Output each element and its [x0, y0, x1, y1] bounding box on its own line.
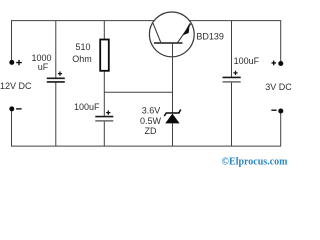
- svg-text:3V DC: 3V DC: [265, 82, 292, 92]
- svg-text:510: 510: [75, 42, 90, 52]
- svg-text:ZD: ZD: [145, 126, 157, 136]
- svg-text:0.5W: 0.5W: [140, 116, 162, 126]
- svg-text:3.6V: 3.6V: [142, 106, 161, 116]
- svg-text:12V DC: 12V DC: [0, 81, 32, 91]
- svg-text:100uF: 100uF: [74, 102, 100, 112]
- svg-text:100uF: 100uF: [234, 56, 260, 66]
- svg-text:Ohm: Ohm: [72, 54, 92, 64]
- svg-text:uF: uF: [38, 62, 49, 72]
- svg-text:©Elprocus.com: ©Elprocus.com: [222, 157, 289, 168]
- svg-text:BD139: BD139: [196, 32, 224, 42]
